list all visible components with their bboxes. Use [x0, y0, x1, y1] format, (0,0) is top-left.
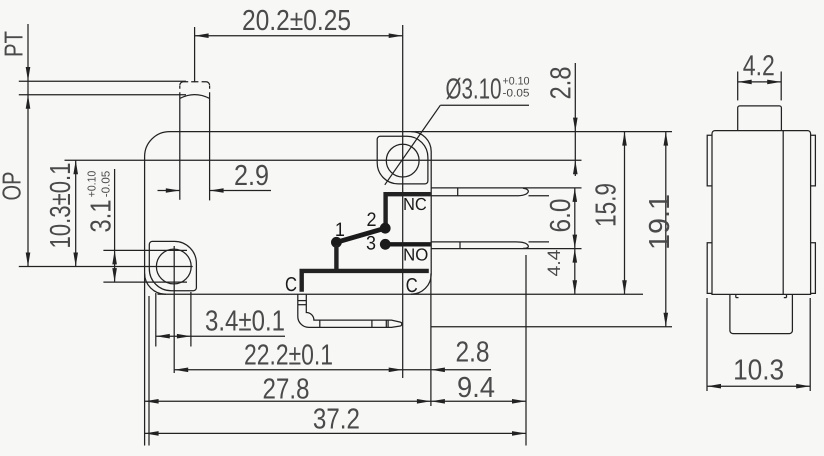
hole flat reference line upper: [103, 249, 187, 251]
NO terminal pin: [431, 242, 528, 249]
bottom hole center vertical extension: [173, 246, 175, 373]
body top edge extension to right: [411, 131, 672, 133]
dimension 10.3 side view: [707, 298, 810, 391]
hole right edge extension (3.4): [190, 292, 192, 347]
side view body: [712, 131, 811, 295]
text +0.10 upper tolerance: [503, 77, 529, 85]
label C right: [407, 278, 418, 292]
plunger free position top (phantom dashes): [180, 82, 210, 89]
label C left: [286, 277, 297, 291]
dimension 3.4±0.1: [156, 310, 285, 338]
PT reference line upper: [19, 80, 186, 82]
label 1: [336, 223, 344, 236]
side view internal parting line: [782, 131, 784, 295]
text -0.05 tolerance: [101, 171, 109, 196]
side view plunger button: [738, 106, 782, 131]
schematic common wire from node 1 to C bus: [302, 245, 429, 292]
side view left lower tab: [707, 243, 712, 294]
text 3.1: [90, 201, 111, 232]
NO pin bottom edge extension: [431, 248, 581, 250]
dimension 2.9: [158, 165, 272, 193]
dimension 27.8 and 9.4: [145, 377, 526, 404]
dimension 10.3±0.1 line: [73, 160, 78, 266]
dimension 4.4: [548, 249, 577, 295]
label 3: [367, 236, 376, 250]
top-right mounting hole: [386, 144, 419, 177]
side view right lower tab: [811, 243, 816, 294]
body right edge extension below: [430, 274, 432, 407]
NC terminal pin: [431, 188, 528, 196]
dimension 15.9: [595, 132, 627, 295]
label OP: [2, 173, 20, 200]
plunger right edge extension: [209, 132, 211, 201]
hole left edge extension (3.4): [155, 293, 157, 347]
schematic node 2 dot: [380, 223, 391, 234]
side view right upper tab: [811, 135, 816, 186]
switch body outline (front view): [145, 132, 432, 295]
plunger dome at operating position: [180, 95, 210, 99]
schematic NC contact bar and riser wire: [386, 194, 431, 224]
dimension PT (vertical line with arrows): [26, 24, 31, 267]
NO pin top edge extension: [529, 241, 550, 243]
label 2: [367, 212, 375, 226]
PT reference line lower: [19, 94, 186, 96]
terminal tip extension line: [525, 255, 527, 446]
text 10.3±0.1: [50, 164, 71, 247]
schematic node 3 dot: [380, 239, 391, 250]
leader line for hole diameter: [385, 105, 529, 185]
plunger button side walls: [180, 92, 210, 131]
dimension 6.0: [550, 188, 577, 249]
NC pin bottom edge extension: [529, 195, 550, 197]
dimension 19.1: [649, 132, 670, 327]
text -0.05 lower tolerance: [503, 89, 529, 97]
dimension 37.2: [145, 408, 526, 435]
boss left edge extension below: [148, 296, 150, 446]
side view boss nub left: [736, 294, 739, 297]
label NC: [404, 198, 426, 210]
side view bottom boss: [730, 294, 793, 333]
body bottom edge short extension left: [158, 293, 167, 295]
text +0.10 tolerance: [87, 171, 95, 197]
bottom-left mounting boss: [149, 241, 196, 290]
terminal bottom extension line: [431, 326, 672, 328]
label NO: [404, 248, 427, 260]
schematic lever wire 1-2: [336, 228, 385, 242]
body bottom edge extension to right: [411, 293, 643, 295]
label PT: [5, 31, 23, 55]
bottom-left mounting hole: [156, 249, 191, 284]
dimension 4.2: [738, 55, 782, 100]
side view boss nub right: [784, 294, 787, 297]
text Ø3.10: [446, 78, 500, 100]
hole axis line horizontal (top row): [65, 159, 582, 161]
plunger left edge extension: [179, 132, 181, 200]
NC pin top edge extension: [431, 187, 581, 189]
top-right mounting boss: [377, 136, 428, 184]
schematic node 1 dot: [331, 237, 342, 248]
side view left upper tab: [707, 135, 712, 186]
hole axis line horizontal (bottom-left hole): [19, 266, 193, 268]
dimension 22.2±0.1 and 2.8: [174, 341, 491, 372]
body left edge extension below: [144, 274, 146, 446]
schematic NO contact bar: [388, 242, 431, 246]
C terminal pin (bent): [298, 294, 402, 327]
vertical center line through top-right hole: [402, 25, 404, 378]
extension line 20.2 left: [194, 27, 196, 82]
dimension 2.8 top right: [550, 63, 577, 176]
hole flat reference line lower: [103, 281, 187, 283]
dimension 3.1 line: [112, 169, 117, 282]
dimension 20.2±0.25: [195, 10, 403, 38]
